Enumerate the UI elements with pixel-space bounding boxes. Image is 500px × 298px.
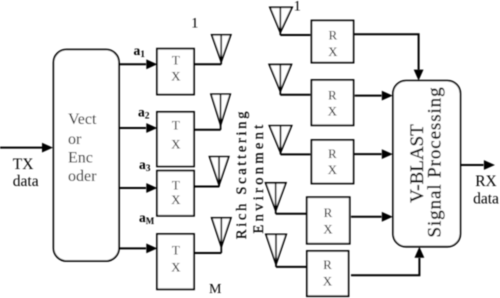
block RX4 — [307, 197, 350, 244]
svg-text:T: T — [172, 243, 180, 258]
svg-text:T: T — [172, 178, 180, 193]
svg-text:X: X — [323, 273, 333, 288]
wire RX2 to V-BLAST with arrow — [355, 91, 393, 101]
wire encoder to TX2 with arrow — [119, 123, 157, 133]
svg-text:R: R — [328, 146, 337, 161]
svg-text:Vect: Vect — [68, 111, 97, 128]
svg-text:Enc: Enc — [68, 150, 93, 167]
wire TX3 to antenna 3 — [194, 186, 220, 188]
wire encoder to TX1 with arrow — [119, 59, 157, 69]
svg-text:X: X — [323, 222, 333, 237]
svg-text:X: X — [328, 44, 338, 59]
label Vector Encoder text — [68, 111, 97, 185]
wire encoder to TX4 with arrow — [119, 244, 157, 254]
svg-text:Rich Scattering: Rich Scattering — [234, 109, 250, 239]
svg-text:T: T — [172, 53, 180, 68]
block TX2 — [157, 112, 194, 166]
antenna TX4 — [212, 218, 231, 253]
label TX data — [13, 156, 39, 190]
wire RX4 to V-BLAST with arrow — [351, 212, 393, 222]
svg-text:X: X — [171, 69, 181, 84]
wire TX1 to antenna 1 — [194, 63, 222, 65]
svg-text:data: data — [13, 173, 39, 190]
block Vector Encoder — [54, 50, 120, 262]
block TX3 — [157, 171, 194, 216]
antenna TX3 — [210, 157, 229, 187]
wire RX5 to V-BLAST bottom with arrow — [351, 247, 424, 276]
svg-text:1: 1 — [294, 0, 302, 15]
svg-text:X: X — [171, 137, 181, 152]
svg-text:R: R — [324, 205, 333, 220]
svg-text:1: 1 — [191, 16, 199, 32]
svg-text:X: X — [171, 192, 181, 207]
wire TX4 to antenna 4 — [194, 252, 222, 254]
svg-text:R: R — [328, 88, 337, 103]
wire antenna3 to RX3 — [281, 153, 311, 155]
antenna TX2 — [211, 94, 230, 130]
svg-text:oder: oder — [68, 168, 97, 185]
antenna RX4 — [266, 183, 286, 214]
antenna RX2 — [269, 65, 291, 95]
svg-text:Signal Processing: Signal Processing — [425, 87, 446, 238]
wire V-BLAST output arrow — [460, 160, 495, 170]
svg-text:X: X — [328, 104, 338, 119]
block RX1 — [312, 21, 354, 63]
svg-text:R: R — [328, 28, 337, 43]
antenna RX5 — [266, 234, 286, 267]
antenna TX1 — [212, 35, 231, 65]
svg-text:R: R — [323, 257, 332, 272]
svg-text:data: data — [473, 191, 499, 208]
svg-text:RX: RX — [475, 173, 497, 190]
wire antenna2 to RX2 — [280, 94, 310, 96]
label RX data — [473, 173, 499, 208]
svg-text:X: X — [171, 260, 181, 275]
block TX4 — [157, 234, 194, 289]
svg-text:T: T — [172, 118, 180, 133]
block TX1 — [157, 49, 194, 95]
svg-text:M: M — [209, 282, 222, 297]
block RX3 — [312, 140, 354, 184]
wire TX2 to antenna 2 — [194, 129, 221, 131]
block V-BLAST Signal Processing — [393, 81, 460, 247]
svg-text:X: X — [328, 162, 338, 177]
svg-text:or: or — [68, 131, 82, 148]
wire encoder to TX3 with arrow — [119, 183, 157, 193]
wire TX data input — [0, 143, 53, 153]
block RX2 — [312, 80, 354, 125]
wire antenna1 to RX1 — [280, 34, 310, 36]
antenna RX1 — [270, 7, 292, 35]
wire antenna5 to RX5 — [276, 266, 307, 268]
antenna RX3 — [269, 126, 291, 155]
wire RX1 to V-BLAST top with arrow — [354, 34, 423, 80]
svg-text:Environment: Environment — [251, 121, 267, 233]
wire RX3 to V-BLAST with arrow — [354, 149, 393, 159]
svg-text:TX: TX — [13, 156, 34, 173]
block RX5 — [307, 251, 349, 296]
wire antenna4 to RX4 — [276, 213, 307, 215]
